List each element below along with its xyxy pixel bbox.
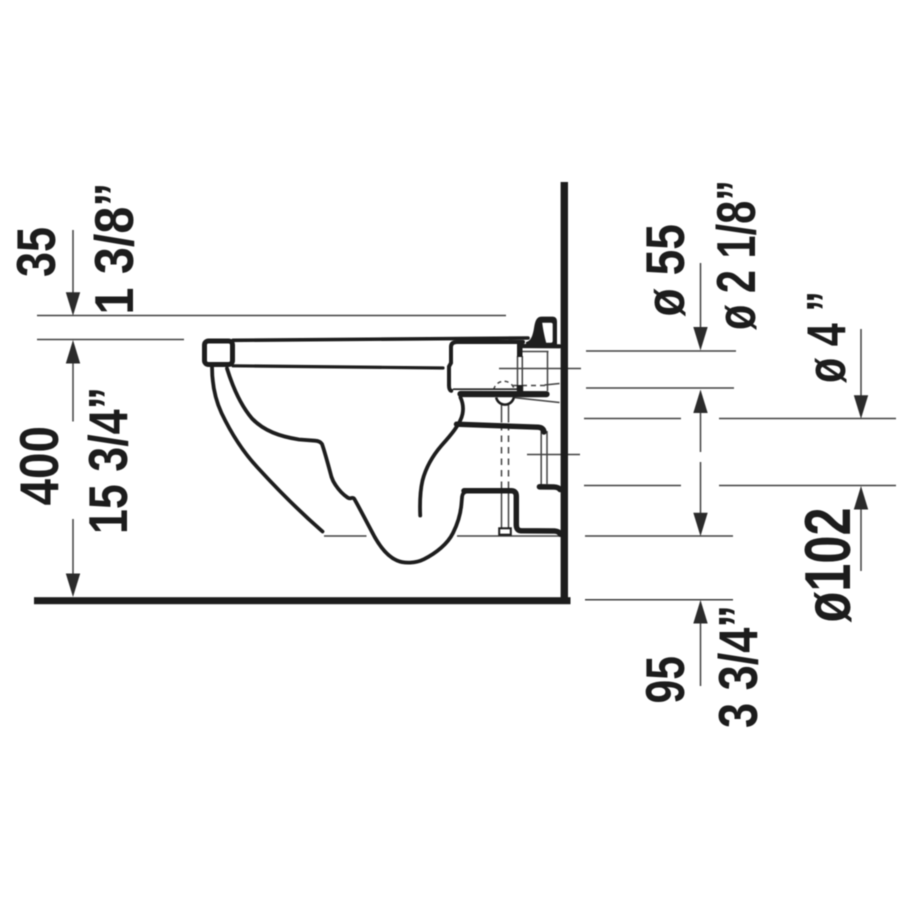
svg-text:ø 55: ø 55: [634, 224, 696, 317]
svg-text:1 3/8”: 1 3/8”: [83, 183, 145, 315]
svg-text:95: 95: [634, 656, 696, 704]
svg-text:ø102: ø102: [791, 508, 864, 623]
svg-text:35: 35: [5, 227, 67, 277]
svg-text:400: 400: [8, 426, 70, 506]
svg-text:ø 4 ”: ø 4 ”: [795, 291, 857, 383]
svg-text:3 3/4”: 3 3/4”: [707, 605, 769, 728]
svg-text:15 3/4”: 15 3/4”: [77, 387, 139, 534]
svg-text:ø 2 1/8”: ø 2 1/8”: [705, 180, 767, 330]
